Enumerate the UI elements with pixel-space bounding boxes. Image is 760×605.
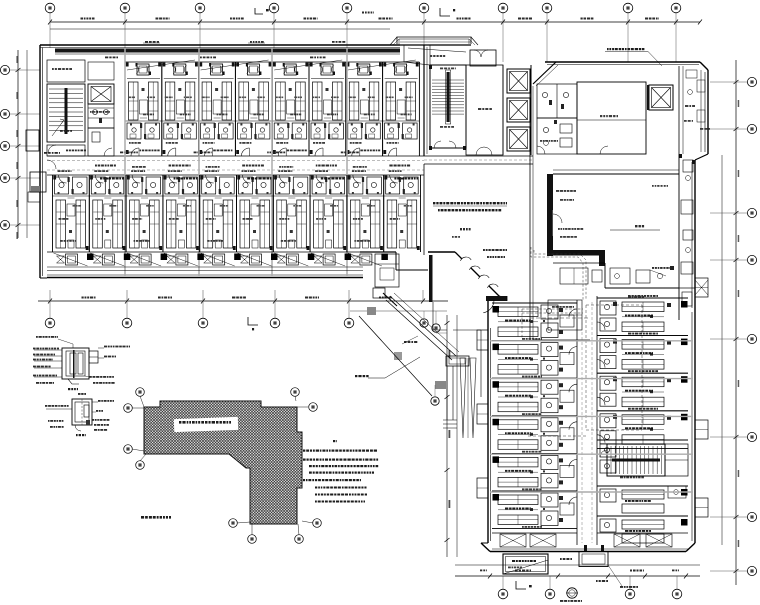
east hall strip	[678, 66, 680, 154]
pipe chase double line	[529, 84, 531, 340]
hatch bubble	[313, 519, 322, 528]
vertical dimension line left of south wing	[446, 315, 448, 557]
grid bubble top 4	[269, 3, 279, 13]
court to wing connection walls	[480, 420, 482, 543]
hatch bubble	[136, 461, 145, 470]
dashed utility loop	[586, 304, 642, 306]
grid bubble bottom	[545, 589, 555, 599]
hatch bubble	[229, 519, 238, 528]
unit labels row	[100, 178, 102, 180]
balcony AC unit	[137, 64, 149, 75]
grid bubble at ramp bottom	[431, 397, 439, 405]
small rooms east top-left	[537, 84, 577, 118]
balcony divider	[385, 78, 418, 80]
detail drawing 2	[72, 399, 92, 425]
grid bubble bottom	[625, 589, 635, 599]
notes block	[333, 440, 335, 442]
dorm room N7	[345, 62, 347, 156]
dimension line left	[17, 50, 19, 238]
dorm room E3 (south wing)	[597, 372, 688, 374]
balcony divider	[237, 78, 270, 80]
corridor west end doors	[47, 160, 56, 169]
grid bubble left	[0, 141, 9, 150]
AC bump left wall	[477, 330, 488, 350]
top right pipe label	[607, 48, 609, 50]
balcony divider	[127, 78, 160, 80]
west entry porch	[30, 172, 46, 192]
west wing outer south wall	[47, 277, 363, 279]
dorm room W3 (south wing)	[492, 377, 577, 379]
detail drawing 1	[62, 348, 89, 379]
gray column lobby	[367, 307, 376, 315]
right mid label	[652, 267, 654, 269]
pool text	[483, 249, 485, 251]
lobby text notes	[433, 202, 435, 204]
grid bubble bottom	[498, 589, 508, 599]
upper room east	[577, 82, 646, 154]
west stair block	[47, 84, 85, 142]
balcony AC unit	[358, 64, 370, 75]
south balcony unit	[124, 254, 131, 261]
west side stair bump	[26, 130, 39, 151]
hatch bubble	[291, 388, 300, 397]
balcony AC unit	[395, 64, 407, 75]
center stairwell	[430, 65, 466, 148]
right wall lower fixtures	[668, 486, 686, 498]
dorm room W2 (south wing)	[492, 340, 577, 342]
AC bump right wall	[695, 498, 708, 517]
south balcony unit	[381, 254, 388, 261]
storage boxes along bottom wall	[500, 534, 526, 547]
balcony AC unit	[284, 64, 296, 75]
structural grid lines west wing (gray)	[124, 48, 126, 276]
hatch caption	[141, 516, 144, 519]
dorm room N1	[124, 62, 126, 156]
south wing entry canopy bottom	[579, 552, 608, 567]
center stair rail	[447, 72, 450, 122]
grid bubble top 7	[498, 3, 508, 13]
AC bump right wall	[695, 278, 708, 297]
dimension texts left (rotated)	[16, 56, 18, 63]
grid bubble bottom-west	[270, 318, 280, 328]
escalator label leader	[368, 377, 385, 379]
south balcony unit	[234, 254, 241, 261]
walk bottom steps	[443, 419, 457, 421]
dorm room S4	[162, 175, 164, 252]
grid bubble top 1	[45, 3, 55, 13]
grid bubble left	[0, 173, 9, 182]
ramp small stub	[383, 293, 397, 306]
grid bubble top 9	[623, 3, 633, 13]
balcony AC unit	[247, 64, 259, 75]
detail 2 caption	[76, 434, 78, 436]
hatch bubble	[124, 404, 133, 413]
east block step right wall	[695, 154, 708, 160]
grid bubble bottom	[672, 589, 682, 599]
grid bubble right	[747, 566, 756, 575]
lobby west wall dark bar	[429, 255, 433, 302]
elevator E1	[507, 69, 530, 93]
grid bubble top 6	[419, 3, 429, 13]
grid bubble right	[747, 334, 756, 343]
ramp outer diagonal	[359, 316, 432, 396]
dorm room S3	[125, 175, 127, 252]
dining room thick walls	[547, 174, 553, 256]
reference bubble bottom center	[567, 588, 577, 598]
dorm room S2	[88, 175, 90, 252]
balcony AC unit	[321, 64, 333, 75]
service desk	[375, 254, 399, 287]
east elevator	[649, 85, 673, 110]
grid bubble right	[747, 208, 756, 217]
grid bubble bottom-west	[344, 318, 354, 328]
south balcony strip	[47, 251, 363, 253]
dorm room S9	[346, 175, 348, 252]
structural gray lines south wing	[490, 340, 693, 342]
ramp label	[404, 341, 407, 343]
west elevator	[88, 84, 114, 104]
dorm room W1 (south wing)	[492, 302, 577, 304]
dorm room N5	[271, 62, 273, 156]
center stair doors	[434, 141, 441, 148]
bathroom column beside stair	[600, 444, 616, 457]
south balcony unit	[271, 254, 278, 261]
stair rail west	[65, 88, 68, 134]
grid bubble left	[0, 220, 9, 229]
exterior label north	[145, 41, 148, 43]
east block outer walls	[545, 61, 700, 63]
dorm room S6	[236, 175, 238, 252]
grid bubble top 8	[542, 3, 552, 13]
section mark top 1	[255, 8, 263, 14]
grid bubble top 3	[195, 3, 205, 13]
detail 1 leaders	[34, 349, 62, 351]
grid bubble top 2	[120, 3, 130, 13]
grid bubble bottom-west	[198, 318, 208, 328]
section mark bottom	[516, 581, 526, 589]
court door arc	[483, 300, 494, 313]
north balcony diagonal lines	[127, 60, 195, 70]
grid bubble bottom-west	[45, 318, 55, 328]
dorm room E4 (south wing)	[597, 410, 688, 412]
kitchen lower rooms	[553, 262, 605, 264]
hatch label box	[174, 417, 238, 432]
dining door opening	[552, 210, 554, 236]
balcony divider	[164, 78, 197, 80]
dorm room S1	[52, 175, 54, 252]
balcony divider	[274, 78, 307, 80]
south balcony unit	[345, 254, 352, 261]
AC bump right wall	[695, 420, 708, 439]
stair landing right	[665, 444, 688, 476]
balcony AC unit	[174, 64, 186, 75]
court edge lines	[432, 302, 434, 330]
dorm room N6	[308, 62, 310, 156]
west wing outer west wall	[39, 45, 41, 278]
sprinkler coverage hatched plan	[144, 401, 302, 524]
south wing outer walls	[487, 326, 489, 543]
transformer room bottom left	[503, 554, 548, 574]
hatch bubble	[136, 388, 145, 397]
dining interior line	[610, 229, 660, 231]
south balcony unit	[87, 254, 94, 261]
lobby south wall segments	[360, 251, 396, 253]
dimension line right	[735, 60, 737, 585]
grid bubble right	[747, 77, 756, 86]
dimension line below west wing	[38, 300, 448, 302]
dorm room E lower (south wing)	[597, 485, 688, 487]
grid bubble left	[0, 109, 9, 118]
elevator E2	[507, 98, 530, 122]
stair jambs	[429, 146, 432, 150]
detail 1 caption	[68, 388, 70, 390]
AC bump left wall	[477, 478, 488, 498]
misc label right block	[652, 185, 654, 187]
hatch bubble	[309, 403, 318, 412]
ramp landing box	[446, 356, 469, 366]
grid bubble top 5	[342, 3, 352, 13]
dorm room N8	[382, 62, 384, 156]
grid bubble right	[747, 255, 756, 264]
scale text bottom	[560, 600, 563, 602]
dimension line top	[50, 21, 700, 23]
north balcony dark band	[55, 49, 400, 53]
entrance hall slant	[404, 45, 430, 65]
center stair treads	[432, 79, 464, 81]
dorm room N2	[161, 62, 163, 156]
south wing stair	[607, 444, 665, 476]
east hall south rooms	[533, 339, 590, 341]
diagonal glazed wall with door arcs	[428, 251, 455, 253]
section mark top 2	[440, 8, 450, 16]
south wing top wall at court	[486, 296, 507, 301]
corridor labels	[95, 165, 97, 167]
section mark west wing	[248, 317, 258, 325]
dorm room E1 (south wing)	[597, 297, 688, 299]
room beside west elevator	[88, 104, 114, 128]
hatch bubble	[248, 535, 257, 544]
center block west wall	[423, 45, 425, 156]
grid bubble right	[747, 124, 756, 133]
AC bump left wall	[477, 404, 488, 424]
balcony divider	[348, 78, 381, 80]
south balcony unit	[161, 254, 168, 261]
south balcony unit	[308, 254, 315, 261]
ramp arrows in walk	[460, 358, 466, 438]
stair treads west	[49, 88, 83, 90]
dorm room E lower (south wing)	[597, 515, 688, 517]
west corridor vestibule	[47, 145, 85, 156]
dorm room W5 (south wing)	[492, 452, 577, 454]
dining room outline	[678, 154, 680, 288]
elevator lobby center	[466, 65, 503, 155]
elevator E3	[507, 127, 530, 151]
ramp band	[386, 300, 452, 360]
dorm room S10	[383, 175, 385, 252]
dimension texts right (rotated)	[738, 100, 740, 107]
court walk verticals	[446, 366, 448, 420]
AC bump X right wall	[695, 280, 708, 295]
vestibule	[470, 50, 496, 66]
grid bubble bottom-west	[122, 318, 132, 328]
dorm room N3	[198, 62, 200, 156]
dimension texts top	[81, 18, 84, 20]
grid bubble left	[0, 65, 9, 74]
detail 2 leaders	[46, 408, 72, 410]
dorm room W6 (south wing)	[492, 490, 577, 492]
west wing outer north wall	[40, 44, 400, 46]
small grid bubbles near ramp	[420, 319, 428, 327]
entrance canopy top	[397, 37, 471, 44]
east hall fixtures	[697, 80, 705, 92]
south balcony unit	[197, 254, 204, 261]
dorm room S8	[309, 175, 311, 252]
hatch bubble	[295, 535, 304, 544]
grid column leader lines top	[49, 13, 51, 48]
dimension line bottom	[455, 564, 700, 566]
main corridor west wing	[47, 155, 424, 157]
south wing corridor	[576, 300, 578, 545]
east corridor strip lower	[678, 288, 680, 320]
grid bubble right	[747, 512, 756, 521]
grid bubble right	[747, 432, 756, 441]
dorm room S7	[272, 175, 274, 252]
dorm room S5	[199, 175, 201, 252]
balcony divider	[201, 78, 234, 80]
west lobby room	[47, 60, 85, 82]
hatch bubble	[124, 445, 133, 454]
grid bubble top 10	[671, 3, 681, 13]
balcony AC unit	[211, 64, 223, 75]
dashed utility riser from east block	[534, 250, 586, 300]
dorm room N4	[234, 62, 236, 156]
center block south corridor	[424, 155, 533, 157]
balcony divider	[311, 78, 344, 80]
dorm room W4 (south wing)	[492, 415, 577, 417]
dorm room E2 (south wing)	[597, 335, 688, 337]
